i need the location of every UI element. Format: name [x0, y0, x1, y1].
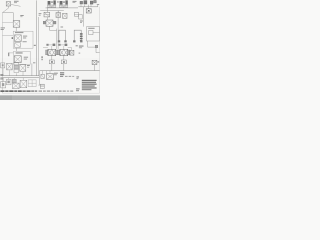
label above cylinder 1 [61, 27, 64, 28]
diagonal wire to left border [3, 8, 9, 13]
valve H below bus [41, 71, 44, 79]
valve V10 right of VA2 [68, 48, 81, 56]
label near pumps [73, 1, 77, 3]
wire stem under V2 [50, 26, 57, 30]
wire horizontal y12.6 [2, 12, 13, 14]
wire y47.1 right [88, 46, 96, 48]
wire from V13 to right [11, 4, 21, 6]
label right of VA2 [76, 45, 78, 46]
box small right x74 [74, 12, 78, 16]
label J [54, 73, 58, 76]
label P left of assemblies [41, 56, 42, 60]
callout text stack (left of legend) [80, 33, 83, 41]
valve V4 (left mid y20) [13, 21, 20, 28]
wire pump stems [52, 7, 64, 8]
pump U [6, 79, 11, 84]
wire stub x88.6 [88, 5, 90, 9]
subsystem box B1 [13, 31, 33, 48]
wire drop x39.7 [38, 71, 44, 86]
valve I below bus [46, 71, 53, 80]
filter F2 [56, 13, 61, 18]
page border bottom [2, 92, 99, 94]
label 12 [20, 15, 23, 17]
small comp above title block [76, 76, 79, 79]
check valve right [95, 45, 98, 48]
wire y35.6 [2, 35, 13, 37]
wire link B1 to B2 [15, 48, 17, 51]
cylinder 1 (arch) [58, 30, 67, 42]
wire stems pump C D [81, 4, 91, 7]
valve V9 [20, 65, 26, 72]
accumulator T (bottom left edge) [1, 82, 6, 88]
mark between pump groups [57, 1, 59, 2]
bottom gray margin band [0, 95, 100, 100]
valve V3 (right, y8.6) [86, 9, 91, 13]
margin text left [0, 74, 3, 79]
note text left [1, 27, 5, 30]
tick near x34 [34, 45, 36, 46]
valve V6 in B1 [15, 43, 21, 48]
relief valve M (right of bus) [92, 60, 99, 64]
cylinder 2 (arch) [73, 30, 82, 42]
label in B2 [16, 52, 23, 53]
accumulator (left edge) [1, 63, 5, 68]
subsystem box B2 [14, 51, 31, 64]
wire drop x47.4 [46, 8, 48, 12]
wire stems VA1 VA2 [52, 56, 64, 60]
label left of filter [39, 13, 42, 15]
solenoid valve VA1 [46, 49, 58, 55]
pump group B (top center right) [59, 0, 67, 7]
wire stub filter [47, 17, 49, 20]
wire vertical x13.3 [12, 13, 14, 21]
table X2 [28, 80, 36, 87]
valve W [20, 80, 27, 87]
wire long vertical x38.4 [37, 17, 39, 76]
label 13 (top-left) [14, 1, 19, 3]
wire y52.9 left stub [8, 53, 14, 57]
small note above strip right [76, 88, 80, 91]
valve box c4 [63, 13, 67, 18]
wire stubs into bottom cluster [3, 78, 23, 82]
wire vertical x56.6 x58.1 [57, 11, 59, 49]
title block text [82, 80, 97, 90]
pump group C (top right) [80, 1, 87, 4]
wire x96 down then right [96, 48, 100, 53]
tank line y75.7 [0, 75, 39, 77]
main bus line y70.6 [39, 70, 99, 72]
node dot [12, 37, 14, 39]
valve V7 in B2 [14, 56, 21, 63]
marks right of V9 [27, 65, 30, 68]
wire under legend x87.6 [87, 41, 89, 47]
wire drop x58.3 [57, 11, 59, 13]
box G bottom [40, 84, 44, 88]
part number strip (bottom left, dark) [0, 90, 37, 92]
page background [0, 0, 100, 100]
pump group D (top far right) [90, 0, 96, 4]
marks in B2 [24, 57, 28, 60]
legend box (right) [87, 27, 100, 41]
wire long vertical x36.6 [36, 0, 38, 75]
manifold stack [14, 62, 19, 72]
pump group A (top center left) [47, 0, 55, 7]
valve V2 (center y20-27) [43, 20, 56, 26]
valve V8 [7, 63, 13, 70]
pilot boxes above VA2 [58, 44, 67, 46]
wire top link assemblies [43, 46, 64, 49]
label in B1 [15, 32, 23, 33]
dashed note L [65, 75, 74, 78]
valve V5 in B1 [15, 35, 22, 42]
part number strip (bottom middle, lighter) [39, 91, 74, 92]
page border left [1, 13, 3, 94]
wire y10.6 [40, 10, 64, 12]
box small c6 [79, 15, 83, 19]
gauge G1 [49, 60, 54, 64]
wire stems to bus [52, 64, 64, 71]
wire drops to tank lines [3, 68, 23, 76]
wire long vertical x83.6 [83, 7, 85, 27]
marks in B1 [23, 36, 28, 43]
wire stub below V13 [8, 6, 10, 8]
page border right [99, 7, 101, 93]
valve stack V [12, 79, 19, 88]
text block K [60, 72, 64, 77]
filter F1 [44, 12, 50, 17]
pilot boxes above VA1 [46, 44, 55, 46]
wire x31.9 [31, 63, 33, 75]
tick near x33 [33, 62, 35, 63]
wire bus y6.8 right [78, 4, 99, 7]
valve V13 (top-left component) [6, 2, 10, 6]
label right mid [79, 46, 84, 49]
gauge G2 [61, 60, 66, 64]
label 5 [80, 21, 83, 23]
wire stem M [94, 65, 96, 71]
wire stem V4 down [15, 27, 17, 31]
wire bus y7.9 [46, 7, 79, 9]
wire y22.6 from border [2, 22, 13, 24]
solenoid valve VA2 [58, 49, 70, 55]
tank line y77.6 [0, 77, 39, 79]
